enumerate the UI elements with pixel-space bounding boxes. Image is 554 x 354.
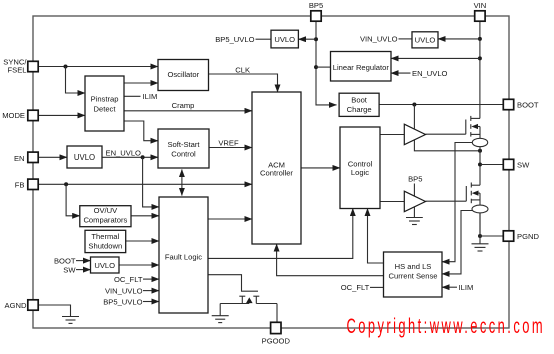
svg-text:OV/UV: OV/UV (94, 206, 119, 215)
pin BP5 (309, 1, 323, 21)
wire VIN_UVLO label stub (360, 35, 412, 44)
wire BP5 label stub to LS driver (408, 175, 422, 197)
wire FB branch to OV/UV comparators (66, 184, 80, 216)
node junction FB (64, 182, 68, 186)
wire PGND to pin (480, 235, 504, 237)
wire SYNC/FSEL to Oscillator (38, 66, 158, 68)
node junction EN_UVLO (141, 155, 145, 159)
pin AGND (5, 300, 39, 310)
svg-text:EN_UVLO: EN_UVLO (106, 148, 142, 157)
wire current sense to ACM controller (277, 244, 384, 276)
svg-text:Thermal: Thermal (91, 232, 119, 241)
wire LS driver to LS FET gate (426, 200, 467, 202)
svg-text:BOOT: BOOT (54, 256, 76, 265)
svg-text:MODE: MODE (2, 111, 25, 120)
box HS and LS Current Sense (384, 252, 443, 297)
box UVLO (VIN) (412, 32, 438, 48)
svg-text:BOOT: BOOT (517, 100, 539, 109)
wire LS current sense tap (442, 211, 473, 274)
pin MODE (2, 110, 38, 120)
op-amp LS gate driver (404, 191, 425, 212)
wire EN_UVLO branch to Fault Logic (143, 157, 159, 207)
wire Boot Charge to BOOT pin (379, 104, 503, 106)
wire Pinstrap to Soft-Start (124, 121, 158, 141)
current sense element HS (ellipse) (472, 138, 487, 146)
wire VIN into UVLO (438, 38, 480, 40)
wire LS source to PGND (479, 213, 481, 236)
transistor HS FET Q1 (466, 116, 480, 138)
svg-text:CLK: CLK (235, 65, 250, 74)
svg-text:Detect: Detect (94, 104, 117, 113)
wire OV/UV to Fault Logic (131, 215, 159, 217)
wire ACM to Control Logic (301, 167, 340, 169)
wire BOOT label into UVLO (54, 256, 91, 265)
ground LS driver (406, 207, 423, 225)
wire Fault Logic to Control Logic (208, 209, 353, 259)
wire VIN_UVLO into Fault Logic (105, 286, 159, 295)
svg-text:VIN: VIN (474, 1, 487, 10)
wire AGND to ground (38, 305, 79, 323)
svg-text:BP5: BP5 (309, 1, 323, 10)
node junction boot/driver (412, 103, 416, 107)
pin SW (503, 159, 530, 169)
wire Control Logic to HS driver (380, 134, 404, 136)
wire MODE to Pinstrap Detect (38, 114, 85, 116)
wire HS driver to HS FET gate (426, 133, 466, 135)
pin SYNC/FSEL (3, 58, 38, 75)
wire current sense to Control Logic (368, 209, 384, 264)
svg-text:Boot: Boot (351, 96, 368, 105)
svg-text:BP5: BP5 (408, 175, 422, 184)
svg-text:BP5_UVLO: BP5_UVLO (103, 297, 142, 306)
transistor PGOOD open-drain FET (220, 296, 277, 303)
svg-text:FB: FB (15, 181, 25, 190)
wire PGOOD drain to pin (276, 304, 278, 323)
svg-text:SW: SW (63, 265, 76, 274)
svg-text:FSEL: FSEL (8, 65, 27, 74)
wire EN_UVLO into Linear Regulator (391, 69, 448, 78)
box Pinstrap Detect (85, 76, 124, 131)
svg-text:Fault Logic: Fault Logic (165, 252, 202, 261)
wire SW label into UVLO (63, 265, 90, 274)
svg-text:VIN_UVLO: VIN_UVLO (105, 286, 143, 295)
svg-text:PGOOD: PGOOD (262, 337, 291, 346)
wire SYNC branch to Pinstrap Detect (66, 67, 86, 94)
node junction VIN/UVLO (478, 37, 482, 41)
svg-text:Cramp: Cramp (172, 101, 195, 110)
wire VIN rail down to HS FET drain (479, 21, 481, 118)
svg-text:UVLO: UVLO (74, 153, 95, 162)
box UVLO (EN) (67, 146, 102, 168)
svg-text:Current Sense: Current Sense (389, 272, 438, 281)
pin PGND (503, 231, 539, 241)
wire ILIM into current sense (442, 283, 473, 292)
wire BP5_UVLO label stub (215, 35, 271, 44)
wire BP5 rail down to Boot Charge (316, 21, 337, 105)
svg-text:Control: Control (171, 150, 196, 159)
svg-text:HS and LS: HS and LS (395, 262, 432, 271)
pin BOOT (503, 99, 539, 109)
wire SW node (479, 151, 481, 185)
wire Fault Logic to PGOOD FET gate (208, 275, 258, 292)
svg-text:SW: SW (517, 160, 530, 169)
wire OC_FLT into Fault Logic (114, 275, 159, 284)
box Thermal Shutdown (85, 230, 126, 252)
box UVLO (BOOT/SW) (91, 257, 120, 273)
wire SW to pin (480, 164, 504, 166)
svg-text:Copyright:www.eccn.com: Copyright:www.eccn.com (347, 315, 546, 338)
svg-text:Soft-Start: Soft-Start (167, 140, 200, 149)
svg-text:OC_FLT: OC_FLT (341, 283, 370, 292)
svg-text:Linear Regulator: Linear Regulator (333, 63, 390, 72)
svg-text:OC_FLT: OC_FLT (114, 275, 143, 284)
wire BP5_UVLO into Fault Logic (103, 297, 159, 306)
svg-text:Charge: Charge (347, 105, 372, 114)
svg-text:Pinstrap: Pinstrap (91, 94, 119, 103)
svg-text:UVLO: UVLO (415, 36, 436, 45)
wire Cramp to ACM controller (124, 101, 252, 111)
wire FB to ACM controller (38, 183, 252, 185)
wire Linear Regulator output to BP5 rail (316, 66, 331, 68)
wire Thermal Shutdown to Fault Logic (126, 240, 159, 242)
wire Control Logic to LS driver (380, 201, 404, 203)
wire BP5 into UVLO (298, 38, 316, 40)
node junction on SYNC line (64, 65, 68, 69)
svg-text:Comparators: Comparators (83, 215, 127, 224)
wire CLK to ACM controller (209, 65, 278, 92)
ground power stage (472, 236, 489, 251)
wire Pinstrap to Oscillator (124, 82, 158, 84)
node junction BP5/UVLO (314, 37, 318, 41)
pin EN (14, 152, 38, 163)
box OV/UV Comparators (80, 206, 131, 227)
svg-text:AGND: AGND (5, 301, 27, 310)
wire HS driver return rail to SW (414, 140, 480, 151)
svg-text:ILIM: ILIM (143, 92, 158, 101)
wire VIN into Linear Regulator (391, 57, 480, 59)
node junction BP5/LinReg (314, 65, 318, 69)
svg-text:Controller: Controller (260, 168, 293, 177)
box Fault Logic (159, 197, 208, 313)
node junction HS source (478, 149, 482, 153)
box UVLO (BP5) (271, 30, 298, 48)
box Linear Regulator (331, 52, 392, 82)
wire boot supply to HS driver (413, 105, 415, 129)
op-amp HS gate driver (404, 124, 425, 145)
svg-text:VIN_UVLO: VIN_UVLO (360, 35, 398, 44)
wire ILIM stub from Pinstrap (124, 92, 157, 101)
svg-text:ILIM: ILIM (459, 283, 474, 292)
box Oscillator (158, 60, 209, 91)
svg-text:Shutdown: Shutdown (88, 241, 122, 250)
wire VREF to ACM controller (209, 139, 252, 148)
outer border (33, 16, 509, 328)
wire Soft-Start / Fault Logic double arrow (181, 170, 183, 196)
svg-text:UVLO: UVLO (94, 261, 115, 270)
pin PGOOD (262, 322, 291, 345)
node junction VIN/LinReg (478, 56, 482, 60)
box Control Logic (340, 127, 380, 209)
node junction PGND (478, 234, 482, 238)
svg-text:EN: EN (14, 154, 25, 163)
wire EN to UVLO (38, 156, 67, 158)
current sense element LS (ellipse) (472, 205, 488, 213)
svg-text:UVLO: UVLO (274, 35, 295, 44)
transistor LS FET Q2 (466, 183, 480, 206)
svg-text:VREF: VREF (218, 139, 239, 148)
svg-text:EN_UVLO: EN_UVLO (412, 69, 448, 78)
pin FB (15, 179, 38, 190)
node junction SW (478, 163, 482, 167)
svg-text:PGND: PGND (517, 232, 539, 241)
svg-text:BP5_UVLO: BP5_UVLO (215, 35, 254, 44)
svg-text:Logic: Logic (351, 168, 369, 177)
pin VIN (474, 1, 487, 21)
ground PGOOD source (212, 304, 229, 323)
box ACM Controller (252, 92, 301, 244)
wire OC_FLT stub from current sense (341, 283, 384, 292)
svg-text:Oscillator: Oscillator (167, 70, 199, 79)
wire EN_UVLO to Soft-Start (102, 148, 158, 157)
box Boot Charge (339, 93, 379, 116)
wire HS current sense tap (442, 143, 472, 262)
wire UVLO to Fault Logic (119, 264, 159, 266)
wire Fault Logic to ACM controller (208, 218, 252, 220)
box Soft-Start Control (158, 129, 209, 168)
